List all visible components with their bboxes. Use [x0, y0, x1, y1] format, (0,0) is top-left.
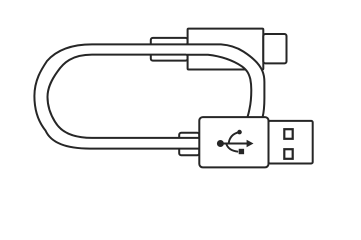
- usb-a contact square upper: [284, 129, 292, 139]
- usb-c strain relief: [151, 38, 188, 61]
- cable loop ring: [34, 44, 202, 148]
- trident big dot: [217, 140, 224, 147]
- descending cable band outer edge: [186, 44, 264, 117]
- usb-a contact square lower: [284, 149, 292, 159]
- usb-a strain relief: [179, 133, 199, 155]
- usb-a body: [199, 117, 268, 167]
- trident square: [239, 149, 244, 154]
- trident upper branch: [229, 132, 239, 144]
- trident main line: [222, 143, 248, 145]
- trident arrowhead: [247, 140, 254, 147]
- trident upper dot: [237, 130, 242, 135]
- descending cable band fill: [186, 44, 264, 117]
- descending cable band inner edge: [186, 55, 251, 118]
- usb trident symbol: [217, 130, 254, 154]
- trident lower branch: [226, 144, 238, 152]
- usb-c tip: [263, 34, 286, 63]
- usb-a plug: [269, 121, 313, 164]
- usb-c body: [188, 29, 264, 70]
